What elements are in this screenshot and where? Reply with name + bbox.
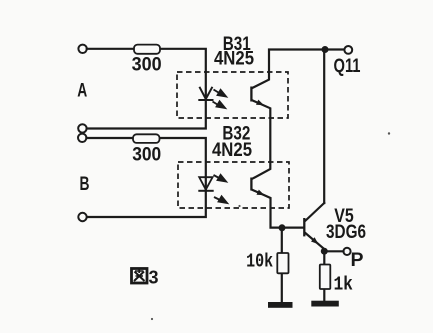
svg-text:3DG6: 3DG6 [326, 222, 366, 243]
svg-text:A: A [77, 81, 87, 102]
svg-text:Q11: Q11 [334, 56, 361, 77]
svg-text:1k: 1k [333, 274, 353, 296]
svg-text:4N25: 4N25 [214, 49, 254, 70]
svg-text:300: 300 [132, 145, 161, 166]
svg-text:4N25: 4N25 [212, 140, 252, 161]
svg-text:10k: 10k [246, 251, 273, 273]
svg-text:3: 3 [149, 268, 159, 288]
svg-text:B: B [80, 174, 90, 195]
svg-text:300: 300 [132, 55, 162, 76]
svg-text:P: P [351, 250, 364, 271]
